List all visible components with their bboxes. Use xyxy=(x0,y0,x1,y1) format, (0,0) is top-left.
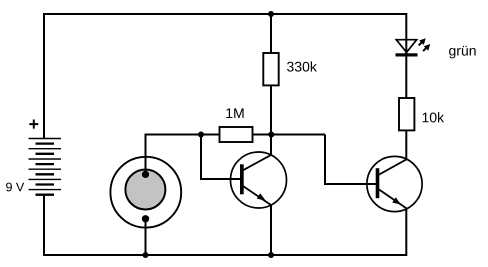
wire left rail lower (battery -) xyxy=(43,195,45,256)
LED D1 cathode bar xyxy=(396,53,418,56)
resistor R2 330k box xyxy=(263,53,278,85)
transistor Q1 emitter line xyxy=(242,185,271,205)
wire LED branch (top rail to 10k) xyxy=(405,13,407,98)
wire 330k branch vertical xyxy=(270,14,272,135)
wire top rail xyxy=(44,13,406,15)
LED D1 triangle xyxy=(396,40,416,53)
wire 10k to Q2 collector xyxy=(405,130,407,161)
transistor Q2 emitter arrowhead xyxy=(392,197,401,204)
junction node 1M right / Q1 collector xyxy=(268,132,274,138)
LED D1 emission arrow 1 xyxy=(419,38,426,45)
transistor Q1 base bar xyxy=(240,164,244,194)
resistor R2 value 330k xyxy=(287,61,317,71)
transistor Q2 base bar xyxy=(376,168,380,198)
wire bottom rail xyxy=(44,254,406,256)
transistor Q2 circle xyxy=(367,156,422,211)
transistor Q2 emitter line xyxy=(378,189,406,208)
transistor Q1 emitter arrowhead xyxy=(257,193,266,200)
transistor Q1 circle xyxy=(231,152,287,208)
junction node top (330k / top rail) xyxy=(268,11,274,17)
sensor bottom contact dot xyxy=(142,215,149,222)
resistor R1 1M box xyxy=(220,127,253,142)
wire Q1 collector vertical xyxy=(270,135,272,157)
junction node bottom rail / sensor xyxy=(143,252,149,258)
wire Q2 base jog xyxy=(325,135,377,185)
LED D1 label grün xyxy=(449,46,476,59)
LED D1 emission arrow 2 xyxy=(423,44,430,51)
junction node bottom rail / Q1 emitter xyxy=(268,252,274,258)
battery value 9 V xyxy=(6,183,24,192)
sensor outer circle xyxy=(110,157,181,228)
sensor top contact dot xyxy=(142,171,149,178)
wire sensor/1M row horizontal xyxy=(146,134,326,136)
wire sensor bottom lead xyxy=(145,219,147,255)
wire Q1 base jog xyxy=(201,135,241,180)
resistor R1 value 1M xyxy=(226,108,243,118)
transistor Q1 collector line xyxy=(242,155,272,171)
sensor inner electrode (gray) xyxy=(125,170,165,210)
resistor R3 10k box xyxy=(399,98,414,130)
wire Q1 emitter vertical xyxy=(270,204,272,255)
LED D1 anode wire through triangle xyxy=(405,40,407,54)
junction node 1M left / Q1 base xyxy=(198,132,204,138)
battery B1 plates xyxy=(29,139,62,195)
battery + label xyxy=(29,120,38,129)
resistor R3 value 10k xyxy=(423,112,445,122)
wire sensor top lead xyxy=(145,134,147,176)
wire Q2 emitter vertical xyxy=(405,208,407,257)
transistor Q2 collector line xyxy=(378,159,407,175)
wire left rail upper (battery +) xyxy=(43,13,45,139)
